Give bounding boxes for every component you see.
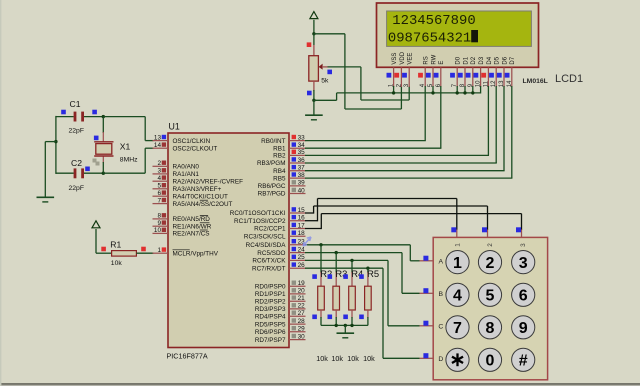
pin 40 RB7/PGD (right) <box>258 187 306 197</box>
svg-text:37: 37 <box>298 165 306 172</box>
pin 20 RD1/PSP1 (right) <box>255 288 306 298</box>
keypad button * <box>446 348 469 371</box>
svg-text:5: 5 <box>486 288 495 305</box>
pin 7 RA5/AN4/SS/C2OUT (left) <box>153 197 233 207</box>
ground crystal <box>37 197 55 202</box>
power +5V arrow near pot <box>310 12 318 19</box>
svg-text:RD4/PSP4: RD4/PSP4 <box>255 314 286 321</box>
keypad column 2 pin <box>482 227 494 247</box>
terminal squares R5 <box>359 274 364 319</box>
svg-text:22pF: 22pF <box>69 128 85 135</box>
svg-text:10k: 10k <box>363 354 375 363</box>
keypad button 4 <box>446 283 469 306</box>
svg-text:4: 4 <box>453 288 462 305</box>
svg-text:RB2: RB2 <box>273 153 286 160</box>
pin 23 RC4/SDI/SDA (right) <box>246 239 306 249</box>
resistor R1 <box>112 251 137 257</box>
svg-text:RB3/PGM: RB3/PGM <box>257 160 286 167</box>
LCD pin 5 RW <box>426 54 438 87</box>
keypad button 7 <box>446 316 469 339</box>
svg-text:4: 4 <box>157 175 161 182</box>
IC U1 PIC16F877A body <box>168 133 289 348</box>
svg-text:14: 14 <box>154 142 162 149</box>
LCD pin 1 VSS <box>387 53 399 88</box>
LCD LCD1 LM016L body <box>377 3 539 67</box>
pin 22 RD3/PSP3 (right) <box>255 303 306 313</box>
svg-text:24: 24 <box>298 246 306 253</box>
svg-text:OSC2/CLKOUT: OSC2/CLKOUT <box>173 145 218 152</box>
svg-text:5k: 5k <box>321 78 329 85</box>
svg-text:D4: D4 <box>487 56 493 64</box>
pin 2 RA0/AN0 (left) <box>153 160 200 170</box>
svg-text:2: 2 <box>487 243 494 247</box>
LCD pin 4 RS <box>418 56 430 87</box>
mouse cursor artifact <box>303 237 311 246</box>
svg-text:10: 10 <box>154 227 162 234</box>
pin 24 RC5/SDO (right) <box>257 246 305 256</box>
LCD cursor block <box>471 30 478 42</box>
wire D2 to ground rail <box>472 86 474 93</box>
svg-text:D2: D2 <box>471 56 477 64</box>
svg-text:MCLR/Vpp/THV: MCLR/Vpp/THV <box>173 250 219 257</box>
svg-text:22: 22 <box>298 303 306 310</box>
svg-text:X1: X1 <box>120 142 131 152</box>
svg-text:34: 34 <box>298 142 306 149</box>
keypad button 9 <box>512 316 535 339</box>
svg-text:R1: R1 <box>110 239 121 249</box>
wire VDD feed: right, down, right, up to LCD VDD <box>314 33 345 35</box>
svg-text:RD1/PSP1: RD1/PSP1 <box>255 291 286 298</box>
svg-text:RC1/T1OSI/CCP2: RC1/T1OSI/CCP2 <box>234 218 286 225</box>
svg-text:16: 16 <box>298 215 306 222</box>
LCD pin 12 D5 <box>489 56 501 87</box>
svg-text:38: 38 <box>298 172 306 179</box>
svg-text:9: 9 <box>519 320 528 337</box>
wire RC pin to keypad row via R2 tap <box>305 244 410 246</box>
wire D5 to RB3 <box>495 86 497 163</box>
svg-text:RC3/SCK/SCL: RC3/SCK/SCL <box>244 234 286 241</box>
svg-text:8: 8 <box>157 213 161 220</box>
svg-text:17: 17 <box>298 222 306 229</box>
node ground tap junction <box>54 140 57 143</box>
pin 36 RB3/PGM (right) <box>257 157 306 167</box>
keypad button 1 <box>446 251 469 274</box>
svg-text:RA3/AN3/VREF+: RA3/AN3/VREF+ <box>173 186 222 193</box>
svg-text:2: 2 <box>157 160 161 167</box>
pin 39 RB6/PGC (right) <box>258 180 306 190</box>
pin 4 RA2/AN2/VREF-/CVREF (left) <box>153 175 244 185</box>
svg-text:3: 3 <box>519 255 528 272</box>
pin 14 OSC2/CLKOUT (left) <box>153 142 218 152</box>
pin 37 RB4 (right) <box>273 165 305 175</box>
pin 16 RC1/T1OSI/CCP2 (right) <box>234 215 305 225</box>
svg-text:20: 20 <box>298 288 306 295</box>
wire OSC1 route <box>103 116 145 118</box>
svg-text:RC7/RX/DT: RC7/RX/DT <box>252 265 286 272</box>
wire E to RB1 <box>440 86 442 148</box>
svg-text:26: 26 <box>298 262 306 269</box>
keypad button 8 <box>478 316 501 339</box>
LCD pin 8 D1 <box>458 56 470 87</box>
pin 9 RE1/AN6/WR (left) <box>153 220 212 230</box>
svg-text:RC4/SDI/SDA: RC4/SDI/SDA <box>246 242 287 249</box>
wire RC pin to keypad row via R4 tap <box>305 259 388 261</box>
resistor R4 10k pulldown <box>349 260 356 325</box>
svg-text:3: 3 <box>157 168 161 175</box>
power +5V arrow near R1 <box>92 221 100 228</box>
wire ground rail to LCD: right, jog up, right to D3 <box>314 99 337 101</box>
svg-text:1: 1 <box>157 247 161 254</box>
pin 28 RD5/PSP5 (right) <box>255 318 306 328</box>
svg-text:RE2/AN7/CS: RE2/AN7/CS <box>173 231 210 238</box>
svg-text:RE0/AN5/RD: RE0/AN5/RD <box>173 216 211 223</box>
window left edge <box>0 0 1 386</box>
svg-text:1: 1 <box>453 255 462 272</box>
svg-text:VEE: VEE <box>408 53 414 65</box>
pin 5 RA3/AN3/VREF+ (left) <box>153 183 222 193</box>
svg-text:1: 1 <box>455 243 462 247</box>
LCD pin 7 D0 <box>450 56 462 87</box>
keypad row B pin <box>420 288 444 298</box>
wire D3 to ground rail corner <box>480 86 482 94</box>
wire RC0(15) to keypad column 2 <box>305 212 314 214</box>
resistor R3 10k pulldown <box>333 253 340 326</box>
pin 6 RA4/T0CKI/C1OUT (left) <box>153 190 228 200</box>
wire power stem to MCLR <box>95 229 97 253</box>
pin 26 RC7/RX/DT (right) <box>252 262 305 272</box>
svg-text:VDD: VDD <box>400 51 406 64</box>
wire pot top lead <box>313 34 315 45</box>
wire RS to RB0 <box>424 86 426 141</box>
svg-text:D6: D6 <box>502 56 508 64</box>
svg-text:B: B <box>439 291 444 298</box>
wire D7 to RB5 <box>511 86 513 178</box>
svg-text:RW: RW <box>431 54 437 64</box>
keypad row D pin <box>420 353 444 363</box>
wire D1 to ground rail <box>464 86 466 93</box>
keypad column 3 pin <box>516 227 527 247</box>
svg-text:OSC1/CLKIN: OSC1/CLKIN <box>173 138 211 145</box>
svg-text:10k: 10k <box>111 260 123 267</box>
LCD pin 14 D7 <box>505 56 517 87</box>
node pot top junction <box>312 32 315 35</box>
svg-text:28: 28 <box>298 318 306 325</box>
svg-text:RB4: RB4 <box>273 168 286 175</box>
svg-text:27: 27 <box>298 310 306 317</box>
potentiometer RV1 5k <box>309 56 328 81</box>
svg-text:0987654321: 0987654321 <box>388 30 471 46</box>
svg-text:0: 0 <box>486 353 495 370</box>
wire ground stem <box>313 100 315 115</box>
svg-text:15: 15 <box>298 207 306 214</box>
svg-text:D0: D0 <box>456 56 462 64</box>
svg-text:RD5/PSP5: RD5/PSP5 <box>255 321 286 328</box>
capacitor C1 <box>74 112 84 122</box>
wire D0 to ground rail <box>456 86 458 93</box>
wire power stem <box>313 20 315 34</box>
svg-text:C1: C1 <box>70 99 81 109</box>
svg-text:RC2/CCP1: RC2/CCP1 <box>254 226 286 233</box>
svg-text:RB0/INT: RB0/INT <box>261 138 285 145</box>
pin 30 RD7/PSP7 (right) <box>255 333 306 343</box>
wire RC pin to keypad row via R3 tap <box>305 252 402 254</box>
svg-text:30: 30 <box>298 333 306 340</box>
svg-text:R5: R5 <box>367 268 379 279</box>
svg-text:RC0/T1OSO/T1CKI: RC0/T1OSO/T1CKI <box>230 210 286 217</box>
svg-text:VSS: VSS <box>392 53 398 65</box>
wire wiper to LCD VEE <box>328 66 361 68</box>
LCD pin 11 D4 <box>481 56 493 87</box>
svg-text:RB1: RB1 <box>273 145 286 152</box>
svg-text:D7: D7 <box>510 56 516 64</box>
svg-text:35: 35 <box>298 149 306 156</box>
svg-text:19: 19 <box>298 280 306 287</box>
svg-text:RA4/T0CKI/C1OUT: RA4/T0CKI/C1OUT <box>173 193 228 200</box>
svg-text:RS: RS <box>424 56 430 64</box>
svg-text:5: 5 <box>157 183 161 190</box>
svg-text:D3: D3 <box>479 56 485 64</box>
svg-text:22pF: 22pF <box>69 185 85 192</box>
svg-text:LM016L: LM016L <box>523 78 548 85</box>
LCD pin 13 D6 <box>497 56 509 87</box>
terminal squares R3 <box>328 274 333 319</box>
svg-text:25: 25 <box>298 254 306 261</box>
wire VSS down to ground rail <box>393 86 395 93</box>
keypad button 6 <box>512 283 535 306</box>
pin 17 RC2/CCP1 (right) <box>254 222 305 232</box>
svg-text:3: 3 <box>520 243 527 247</box>
svg-text:10k: 10k <box>331 354 343 363</box>
node C2 right <box>84 172 103 174</box>
svg-text:RD7/PSP7: RD7/PSP7 <box>255 337 286 344</box>
svg-text:RA1/AN1: RA1/AN1 <box>173 171 200 178</box>
keypad row C pin <box>420 321 444 331</box>
svg-text:18: 18 <box>298 230 306 237</box>
pin 1 MCLR/Vpp/THV (left) <box>153 247 219 257</box>
resistor R2 10k pulldown <box>318 245 325 326</box>
keypad button 5 <box>478 283 501 306</box>
svg-text:RB7/PGD: RB7/PGD <box>258 191 286 198</box>
pin 13 OSC1/CLKIN (left) <box>153 134 211 144</box>
LCD pin 9 D2 <box>466 56 478 87</box>
svg-text:36: 36 <box>298 157 306 164</box>
ground resistors <box>337 333 355 338</box>
svg-text:33: 33 <box>298 134 306 141</box>
svg-text:E: E <box>439 61 445 65</box>
pin 25 RC6/TX/CK (right) <box>252 254 305 264</box>
svg-text:#: # <box>519 353 528 370</box>
svg-text:RA2/AN2/VREF-/CVREF: RA2/AN2/VREF-/CVREF <box>173 178 244 185</box>
svg-text:RD2/PSP2: RD2/PSP2 <box>255 298 286 305</box>
svg-text:PIC16F877A: PIC16F877A <box>167 352 208 361</box>
wire C1 left lead to ground rail <box>56 116 74 118</box>
wire RC2(17) to keypad column 3 <box>305 228 321 230</box>
pin 38 RB5 (right) <box>273 172 305 182</box>
pin 15 RC0/T1OSO/T1CKI (right) <box>230 207 306 217</box>
pin 10 RE2/AN7/CS (left) <box>153 227 210 237</box>
wire pot bottom lead <box>313 81 315 91</box>
pin 33 RB0/INT (right) <box>261 134 305 144</box>
svg-text:2: 2 <box>486 255 495 272</box>
node C1 right <box>84 116 103 118</box>
resistor R5 10k pulldown <box>365 268 372 325</box>
svg-text:21: 21 <box>298 295 306 302</box>
wire jog to ground <box>45 141 56 143</box>
terminal squares R4 <box>343 274 348 319</box>
LCD pin 10 D3 <box>474 56 486 87</box>
wire OSC2 route <box>103 172 145 174</box>
svg-text:RB5: RB5 <box>273 175 286 182</box>
svg-text:6: 6 <box>157 190 161 197</box>
pin 29 RD6/PSP6 (right) <box>255 326 306 336</box>
svg-text:10k: 10k <box>347 354 359 363</box>
svg-text:RD0/PSP0: RD0/PSP0 <box>255 284 286 291</box>
pin 3 RA1/AN1 (left) <box>153 168 200 178</box>
crystal X1 <box>94 117 113 174</box>
pin 34 RB1 (right) <box>273 142 305 152</box>
wire RC pin to keypad row via R5 tap <box>305 267 383 269</box>
svg-text:U1: U1 <box>169 122 180 132</box>
svg-text:13: 13 <box>154 134 162 141</box>
svg-text:C: C <box>438 323 443 330</box>
svg-text:RC5/SDO: RC5/SDO <box>257 250 285 257</box>
keypad body <box>433 237 547 379</box>
svg-text:D: D <box>438 356 443 363</box>
pin 8 RE0/AN5/RD (left) <box>153 213 211 223</box>
wire RC1(16) to keypad column 1 <box>305 220 318 222</box>
svg-text:7: 7 <box>453 320 462 337</box>
svg-text:RE1/AN6/WR: RE1/AN6/WR <box>173 223 212 230</box>
svg-text:RA5/AN4/SS/C2OUT: RA5/AN4/SS/C2OUT <box>173 201 233 208</box>
svg-text:RB6/PGC: RB6/PGC <box>258 183 286 190</box>
svg-text:RA0/AN0: RA0/AN0 <box>173 164 200 171</box>
svg-text:1234567890: 1234567890 <box>392 13 475 29</box>
node RW on ground rail <box>432 86 434 93</box>
svg-text:D1: D1 <box>463 56 469 64</box>
svg-text:8: 8 <box>486 320 495 337</box>
svg-text:C2: C2 <box>71 158 82 168</box>
ground pot <box>305 115 323 120</box>
terminal squares pot <box>307 42 332 95</box>
svg-text:6: 6 <box>519 288 528 305</box>
svg-text:LCD1: LCD1 <box>555 73 583 85</box>
wire D6 to RB4 <box>503 86 505 171</box>
svg-text:10k: 10k <box>316 354 328 363</box>
svg-text:RD3/PSP3: RD3/PSP3 <box>255 306 286 313</box>
svg-text:8MHz: 8MHz <box>120 157 138 164</box>
window bottom edge <box>0 383 640 385</box>
terminal squares R1 <box>101 247 146 252</box>
capacitor C2 <box>74 168 84 178</box>
LCD pin 3 VEE <box>402 53 414 88</box>
svg-text:D5: D5 <box>495 56 501 64</box>
LCD pin 2 VDD <box>394 51 406 87</box>
pin 19 RD0/PSP0 (right) <box>255 280 306 290</box>
svg-text:A: A <box>439 258 444 265</box>
pin 21 RD2/PSP2 (right) <box>255 295 306 305</box>
pin 27 RD4/PSP4 (right) <box>255 310 306 320</box>
pin 18 RC3/SCK/SCL (right) <box>244 230 306 240</box>
svg-text:39: 39 <box>298 180 306 187</box>
wire D4 to RB2 <box>487 86 489 155</box>
keypad button 2 <box>478 251 501 274</box>
svg-text:9: 9 <box>157 220 161 227</box>
wire R1 to pin 1 <box>136 252 153 254</box>
wire resistor commons to ground <box>321 324 368 326</box>
terminal squares R2 <box>312 274 317 319</box>
svg-text:RC6/TX/CK: RC6/TX/CK <box>252 258 286 265</box>
keypad button 0 <box>478 348 501 371</box>
svg-text:29: 29 <box>298 326 306 333</box>
svg-text:RD6/PSP6: RD6/PSP6 <box>255 329 286 336</box>
LCD pin 6 E <box>434 61 446 88</box>
keypad button 3 <box>512 251 535 274</box>
terminal squares near C1/C2/X1 <box>61 110 99 171</box>
keypad column 1 pin <box>451 227 461 247</box>
svg-text:7: 7 <box>157 197 161 204</box>
pin 35 RB2 (right) <box>273 149 305 159</box>
svg-text:40: 40 <box>298 187 306 194</box>
node pot bottom junction <box>312 99 315 102</box>
keypad button # <box>512 348 535 371</box>
wire C2 left lead <box>56 172 74 174</box>
keypad row A pin <box>420 256 444 266</box>
wire left vertical C1-C2 <box>55 116 57 174</box>
